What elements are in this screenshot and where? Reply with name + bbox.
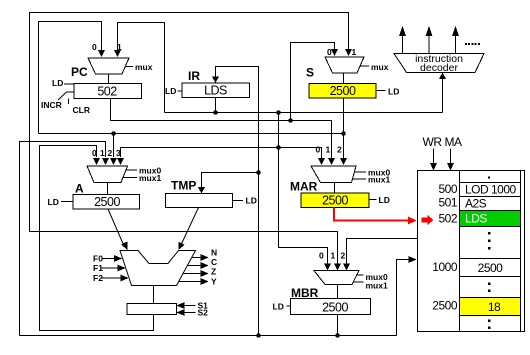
- svg-text:3: 3: [116, 148, 121, 158]
- arrowhead into A mux 2: [110, 158, 117, 165]
- mux S: [325, 57, 364, 73]
- svg-text:2: 2: [337, 145, 342, 155]
- arrowhead into TMP register: [198, 187, 205, 194]
- arrowhead into IR register: [212, 77, 219, 84]
- register MAR box yellow: [301, 193, 369, 208]
- svg-text:18: 18: [488, 300, 501, 314]
- wire riser to A mux 1: [20, 142, 106, 336]
- register TMP box: [166, 194, 233, 208]
- arrowhead into S mux 1: [345, 49, 352, 56]
- wire ALU output to shifter: [153, 286, 155, 304]
- memory cell lines: [460, 183, 521, 316]
- junction dot bus112/x278: [276, 110, 280, 114]
- arrowhead TMP out into ALU: [175, 242, 185, 252]
- svg-text:LD: LD: [165, 86, 176, 96]
- svg-text:2500: 2500: [94, 195, 120, 209]
- wire bus IR-out y=112.5: [165, 112, 443, 114]
- junction dot MBR out: [335, 333, 339, 337]
- register PC box: [74, 84, 142, 99]
- svg-text:0: 0: [92, 42, 97, 52]
- svg-text:MAR: MAR: [290, 180, 318, 194]
- svg-text:WR: WR: [423, 135, 443, 149]
- MA arrow: [450, 149, 452, 164]
- svg-text:502: 502: [438, 212, 457, 226]
- wire memory to MBR mux 2: [347, 239, 418, 264]
- svg-text:1: 1: [117, 42, 122, 52]
- svg-text:2500: 2500: [478, 261, 504, 275]
- svg-text:A2S: A2S: [465, 197, 487, 211]
- wire bus S-out y=133.5: [39, 133, 344, 135]
- mux MBR: [314, 271, 359, 285]
- svg-text:C: C: [211, 257, 217, 267]
- arrowhead into MAR mux 2: [340, 158, 347, 165]
- arrowhead into instruction decoder: [439, 73, 446, 80]
- junction dot S out: [341, 131, 345, 135]
- wire IR output stem: [215, 98, 217, 113]
- svg-text:0: 0: [316, 145, 321, 155]
- mux MAR: [311, 166, 356, 183]
- wire vertical x=278.5 to MBR mux 0: [279, 113, 328, 264]
- decoder dots: [465, 43, 480, 45]
- arrowhead into MBR mux 2: [343, 264, 350, 271]
- svg-text:0: 0: [327, 47, 332, 57]
- svg-text:mux: mux: [135, 62, 153, 72]
- svg-text:LD: LD: [52, 78, 63, 88]
- arrowhead A out into ALU: [121, 242, 131, 252]
- junction dot PC to S branch: [288, 118, 292, 122]
- junction dot bus147/x278: [276, 145, 280, 149]
- label mux0 MAR: [354, 171, 366, 173]
- junction dot A-mux-2 branch: [111, 131, 115, 135]
- arrowhead into MBR mux 1: [334, 264, 341, 271]
- arrowhead into MBR mux 0: [324, 264, 331, 271]
- red wire MAR to memory: [334, 208, 408, 221]
- wire to PC mux 1: [118, 23, 165, 113]
- label mux1 MBR: [354, 281, 364, 283]
- wire MBR output stem: [337, 315, 339, 336]
- wire PC output bus y=120.5: [111, 99, 332, 159]
- svg-text:1: 1: [326, 145, 331, 155]
- svg-text:A: A: [75, 182, 84, 196]
- svg-text:INCR: INCR: [41, 100, 62, 110]
- svg-text:2: 2: [108, 148, 113, 158]
- memory ellipsis bottom: [488, 320, 491, 330]
- svg-text:CLR: CLR: [73, 105, 90, 115]
- wire bottom bus MBR-out y=335.5: [20, 335, 397, 337]
- mux PC: [88, 58, 129, 74]
- label mux0 A: [126, 169, 138, 171]
- svg-text:1: 1: [331, 251, 336, 261]
- wire MBR mux output: [337, 285, 339, 299]
- svg-text:MA: MA: [445, 135, 462, 149]
- arrowhead into memory data port: [409, 256, 417, 263]
- memory ellipsis after 2500: [488, 283, 491, 293]
- flag C arrow: [188, 265, 201, 267]
- wire riser to IR input: [216, 67, 259, 336]
- memory outer box: [418, 171, 525, 332]
- svg-text:1: 1: [352, 47, 357, 57]
- svg-text:LD: LD: [388, 87, 399, 97]
- flag Y arrow: [179, 281, 201, 283]
- arrowhead into A mux 3: [117, 158, 124, 165]
- svg-text:501: 501: [438, 196, 457, 210]
- label mux PC: [126, 66, 133, 68]
- wire TMP output diagonal: [180, 208, 199, 248]
- svg-text:S2: S2: [198, 308, 209, 318]
- register IR box: [182, 83, 250, 98]
- svg-text:502: 502: [97, 85, 117, 99]
- svg-text:S: S: [306, 66, 314, 80]
- svg-text:0: 0: [319, 251, 324, 261]
- svg-text:IR: IR: [188, 69, 200, 83]
- wire A output diagonal: [108, 209, 125, 247]
- wire riser to memory data in: [397, 260, 409, 336]
- wire S mux output: [343, 73, 345, 84]
- svg-text:PC: PC: [71, 65, 88, 79]
- wire branch to TMP input: [202, 173, 259, 188]
- register A box: [73, 195, 140, 210]
- junction dot IR out: [213, 110, 217, 114]
- flag Z arrow: [184, 273, 201, 275]
- svg-text:Y: Y: [211, 277, 217, 287]
- wire branch to A mux 2: [113, 134, 115, 158]
- shifter box: [127, 304, 177, 315]
- svg-text:2500: 2500: [322, 301, 348, 315]
- label LD S: [376, 90, 386, 92]
- svg-text:2: 2: [341, 251, 346, 261]
- register MBR box: [291, 299, 371, 315]
- arrowhead into S mux 0: [331, 49, 338, 56]
- svg-text:MBR: MBR: [291, 286, 319, 300]
- junction dot TMP branch: [256, 170, 260, 174]
- label S2 + arrow: [185, 312, 196, 314]
- label mux1 MAR: [352, 178, 366, 180]
- wire to instruction decoder: [442, 79, 444, 113]
- svg-text:LD: LD: [48, 197, 59, 207]
- register S box yellow: [309, 84, 376, 99]
- memory ellipsis after LDS: [488, 232, 491, 250]
- svg-text:LOD 1000: LOD 1000: [465, 183, 517, 197]
- label mux0 MBR: [356, 274, 364, 276]
- svg-text:LD: LD: [379, 195, 390, 205]
- svg-text:LDS: LDS: [204, 84, 227, 98]
- arrowhead into MAR mux 0: [318, 158, 325, 165]
- svg-text:LDS: LDS: [465, 212, 487, 226]
- svg-text:2500: 2500: [330, 84, 356, 98]
- label LD TMP: [233, 200, 244, 202]
- arrowhead into PC mux 1: [114, 50, 121, 57]
- svg-text:mux1: mux1: [368, 175, 390, 185]
- decoder output arrow 1: [402, 36, 404, 54]
- decoder output arrow 3: [455, 36, 457, 54]
- arrowhead into PC mux 0: [98, 50, 105, 57]
- svg-text:TMP: TMP: [171, 179, 196, 193]
- svg-text:2500: 2500: [432, 299, 458, 313]
- wire branch to MAR mux 2: [343, 134, 345, 159]
- wire MAR mux output: [334, 183, 336, 194]
- wire outer loop S-mux-1 / MBR-mux-1: [30, 13, 349, 264]
- memory dot top: [488, 177, 490, 179]
- svg-text:Z: Z: [211, 267, 216, 277]
- arrowhead into MAR mux 1: [328, 158, 335, 165]
- svg-text:decoder: decoder: [420, 62, 458, 74]
- label S1 + arrow: [185, 305, 196, 307]
- wire riser to PC mux 0: [39, 22, 102, 134]
- wire S output to bus: [343, 98, 345, 134]
- svg-text:N: N: [211, 248, 217, 258]
- memory cell LDS green: [460, 211, 520, 226]
- arrowhead into A mux 0: [93, 158, 100, 165]
- memory inner column verticals: [460, 171, 521, 332]
- junction dot bottom bus IR riser: [256, 333, 260, 337]
- svg-text:2500: 2500: [322, 194, 348, 208]
- WR arrow: [433, 149, 435, 164]
- svg-text:LD: LD: [273, 302, 284, 312]
- label LD MAR: [369, 199, 377, 201]
- svg-text:1: 1: [100, 148, 105, 158]
- svg-text:0: 0: [92, 148, 97, 158]
- flag N arrow: [192, 257, 201, 259]
- svg-text:500: 500: [438, 182, 457, 196]
- red big arrow at memory row 502: [422, 215, 434, 225]
- wire shifter out to A mux 0: [40, 146, 154, 331]
- wire PC mux output: [108, 74, 110, 84]
- label mux1 A: [123, 177, 138, 179]
- instruction decoder: [394, 54, 484, 73]
- wire branch PC to S mux 0: [291, 43, 335, 121]
- svg-text:1000: 1000: [432, 260, 458, 274]
- arrowhead into A mux 1: [102, 158, 109, 165]
- red arrowhead into memory: [408, 217, 417, 225]
- svg-text:mux1: mux1: [366, 281, 388, 291]
- label mux S: [361, 65, 370, 67]
- decoder output arrow 2: [428, 36, 430, 54]
- svg-text:mux: mux: [371, 62, 389, 72]
- wire A mux output: [107, 183, 109, 195]
- mux A: [87, 166, 128, 183]
- svg-text:mux1: mux1: [139, 173, 161, 183]
- wire bus y=147.5 A-mux-3 / MAR-mux-0: [121, 148, 322, 159]
- ALU: [120, 251, 196, 286]
- memory cell 18 yellow: [460, 298, 520, 315]
- svg-text:LD: LD: [246, 196, 257, 206]
